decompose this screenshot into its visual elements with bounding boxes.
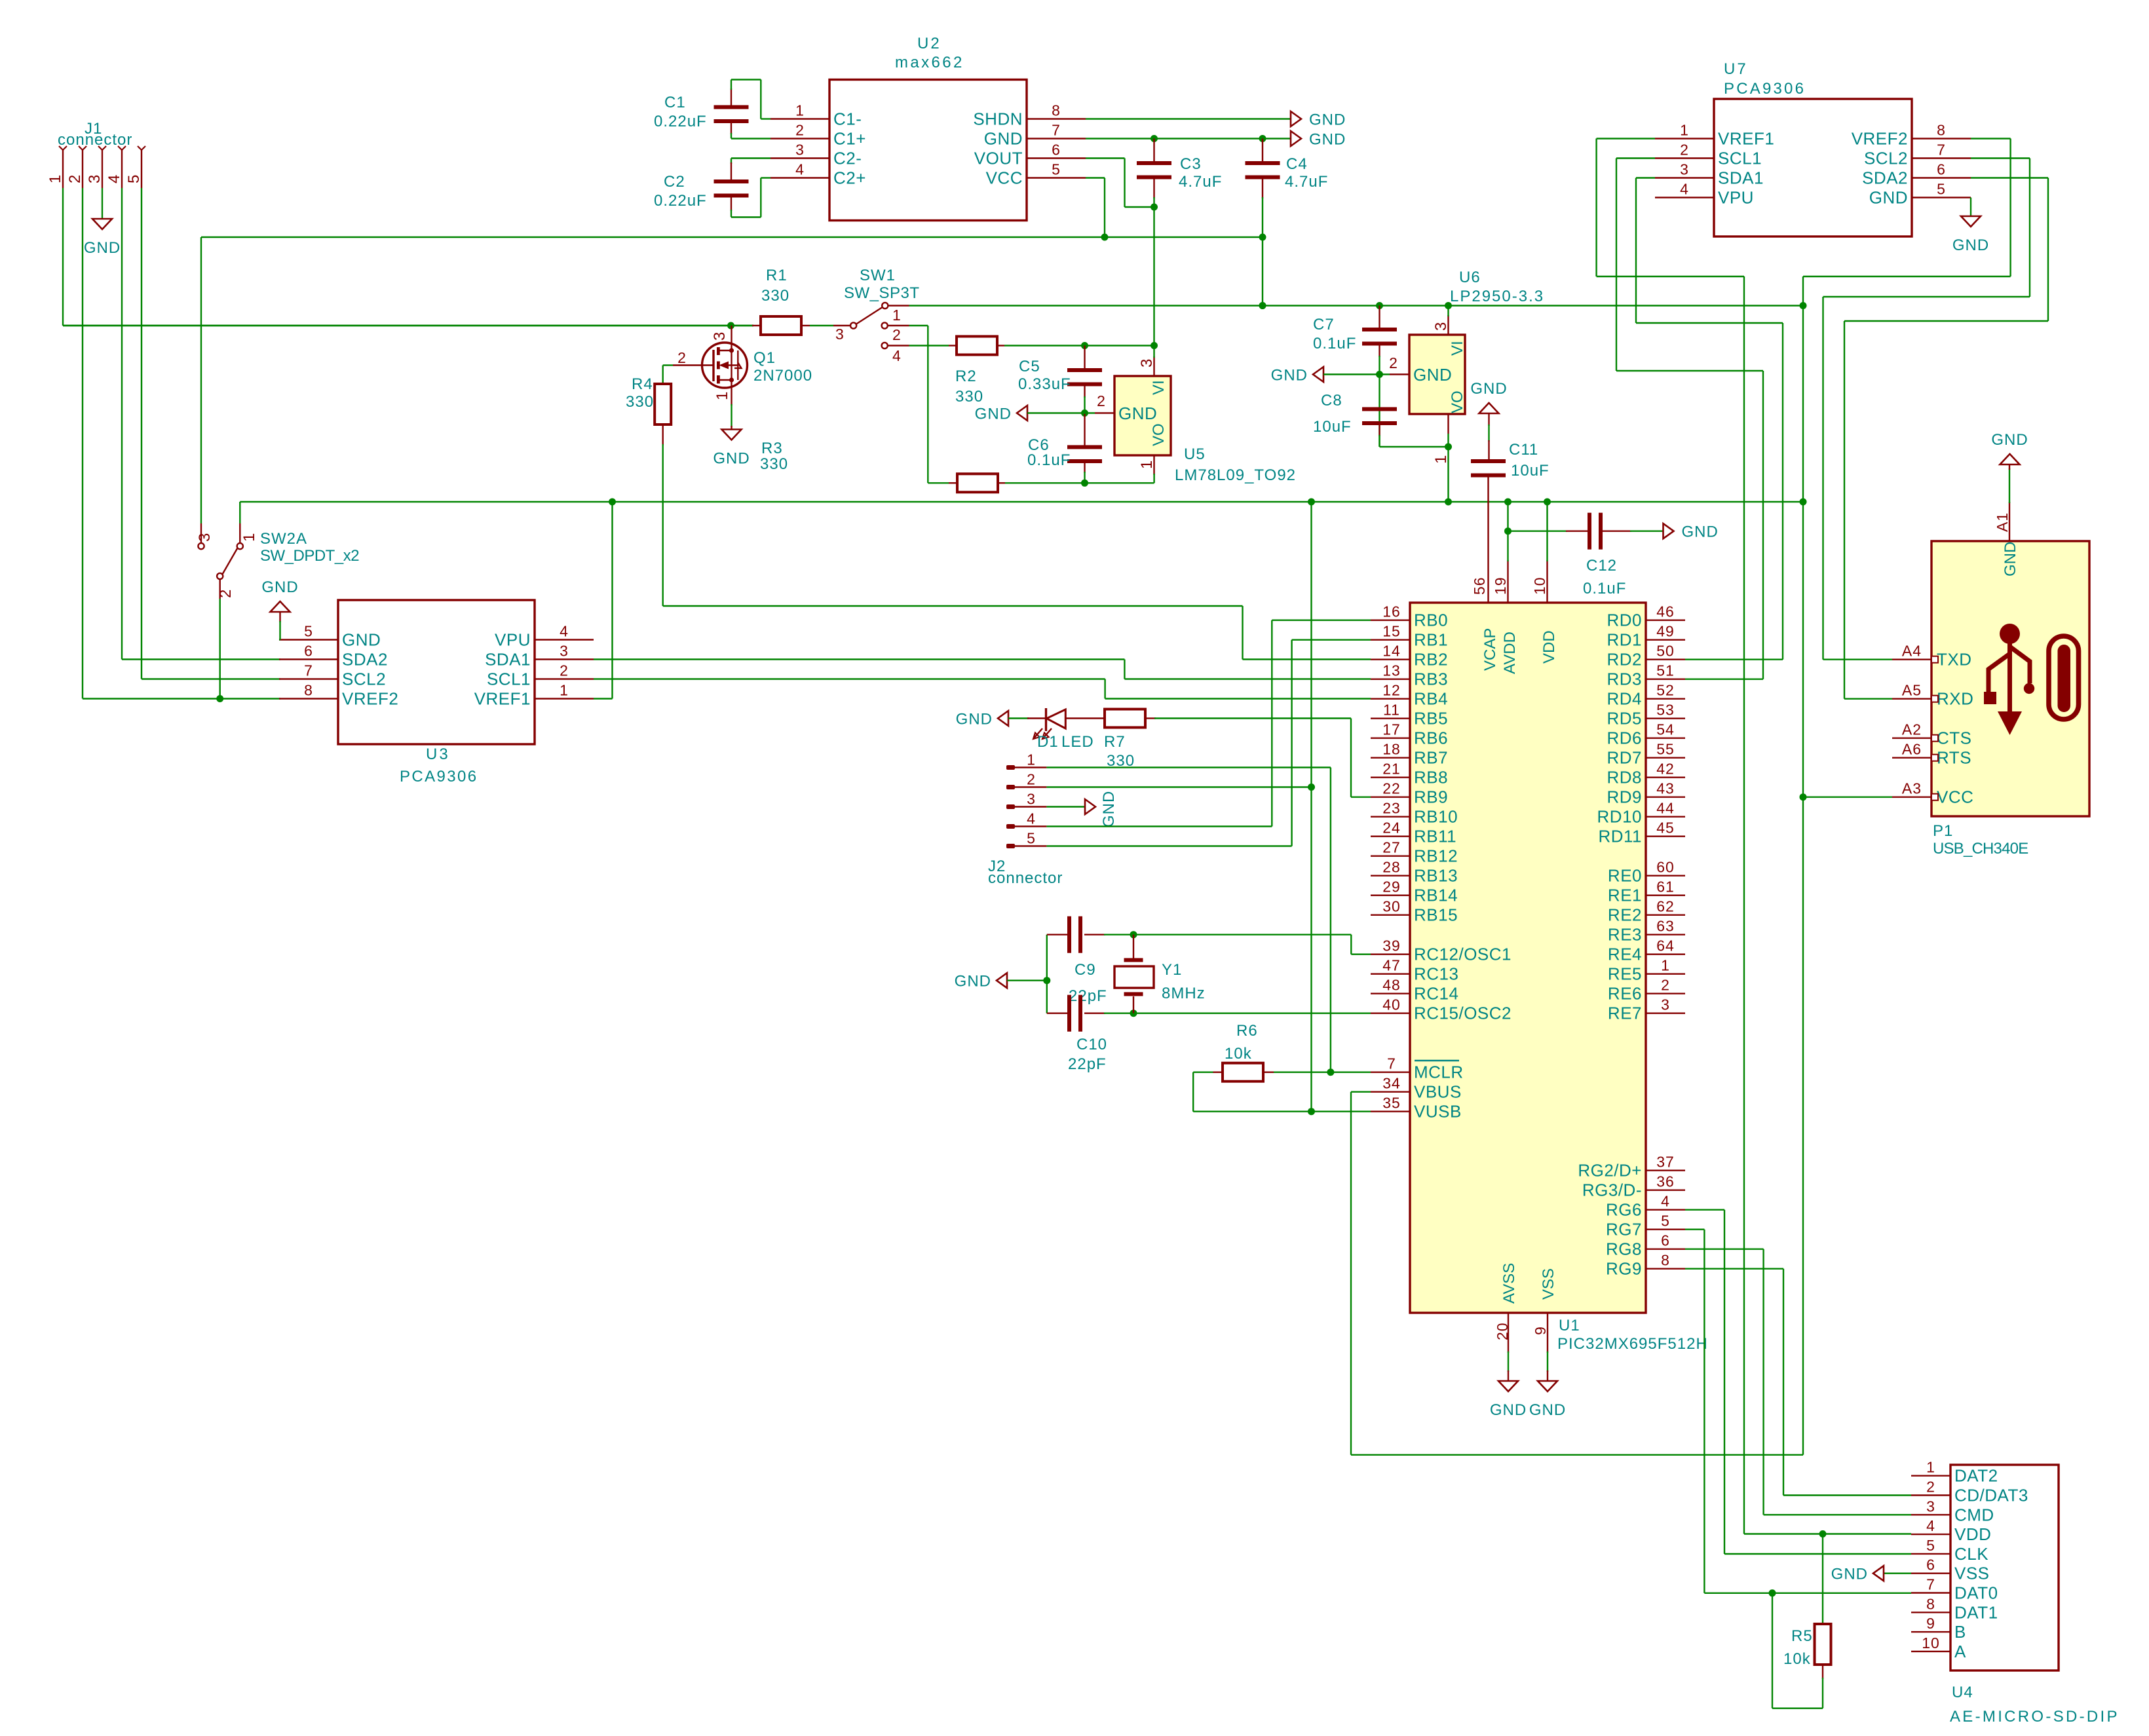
svg-text:GND: GND bbox=[955, 973, 991, 991]
svg-text:U6: U6 bbox=[1459, 269, 1481, 286]
svg-text:1: 1 bbox=[240, 533, 258, 542]
svg-text:2N7000: 2N7000 bbox=[753, 367, 812, 385]
svg-text:R2: R2 bbox=[955, 368, 977, 385]
svg-text:44: 44 bbox=[1656, 800, 1675, 817]
svg-text:max662: max662 bbox=[895, 54, 964, 71]
svg-text:RE3: RE3 bbox=[1608, 925, 1642, 945]
svg-text:SDA1: SDA1 bbox=[485, 650, 531, 670]
svg-text:8MHz: 8MHz bbox=[1162, 985, 1206, 1002]
svg-text:3: 3 bbox=[560, 643, 569, 660]
svg-text:2: 2 bbox=[892, 326, 902, 343]
svg-text:A6: A6 bbox=[1902, 741, 1922, 758]
svg-text:U1: U1 bbox=[1559, 1317, 1580, 1334]
svg-text:VREF1: VREF1 bbox=[474, 689, 531, 709]
svg-text:GND: GND bbox=[713, 450, 750, 468]
svg-text:GND: GND bbox=[1831, 1566, 1868, 1583]
svg-text:34: 34 bbox=[1382, 1075, 1401, 1092]
svg-text:42: 42 bbox=[1656, 761, 1675, 778]
svg-text:RE5: RE5 bbox=[1608, 964, 1642, 984]
svg-text:SCL2: SCL2 bbox=[1864, 149, 1908, 168]
svg-text:VREF2: VREF2 bbox=[1852, 129, 1908, 149]
svg-text:45: 45 bbox=[1656, 820, 1675, 837]
svg-text:2: 2 bbox=[560, 662, 569, 679]
svg-text:A: A bbox=[1954, 1642, 1966, 1661]
svg-text:RG7: RG7 bbox=[1606, 1220, 1642, 1239]
svg-text:22pF: 22pF bbox=[1068, 1055, 1107, 1073]
svg-text:A3: A3 bbox=[1902, 780, 1922, 797]
svg-text:TXD: TXD bbox=[1937, 650, 1972, 670]
svg-text:VPU: VPU bbox=[495, 630, 531, 650]
svg-text:VREF1: VREF1 bbox=[1718, 129, 1774, 149]
svg-text:LM78L09_TO92: LM78L09_TO92 bbox=[1175, 466, 1296, 484]
svg-text:2: 2 bbox=[1097, 392, 1106, 409]
svg-text:52: 52 bbox=[1656, 682, 1675, 699]
svg-text:Y1: Y1 bbox=[1162, 961, 1182, 979]
svg-text:35: 35 bbox=[1382, 1095, 1401, 1112]
svg-text:GND: GND bbox=[342, 630, 381, 650]
svg-text:24: 24 bbox=[1382, 820, 1401, 837]
svg-text:RD9: RD9 bbox=[1607, 787, 1642, 807]
svg-text:4: 4 bbox=[892, 347, 902, 364]
svg-text:SHDN: SHDN bbox=[973, 109, 1023, 129]
svg-text:RD4: RD4 bbox=[1607, 689, 1642, 709]
svg-text:C9: C9 bbox=[1074, 961, 1096, 979]
svg-text:U3: U3 bbox=[426, 745, 450, 763]
svg-text:17: 17 bbox=[1382, 721, 1401, 738]
svg-text:GND: GND bbox=[1490, 1401, 1527, 1419]
svg-text:RB7: RB7 bbox=[1414, 748, 1448, 768]
svg-text:60: 60 bbox=[1656, 859, 1675, 876]
svg-text:AE-MICRO-SD-DIP: AE-MICRO-SD-DIP bbox=[1950, 1708, 2120, 1726]
svg-text:VI: VI bbox=[1150, 380, 1168, 395]
svg-text:7: 7 bbox=[1052, 122, 1061, 139]
svg-text:4: 4 bbox=[1680, 181, 1689, 198]
svg-text:1: 1 bbox=[560, 682, 569, 699]
svg-text:GND: GND bbox=[1952, 236, 1989, 254]
svg-text:1: 1 bbox=[1680, 122, 1689, 139]
svg-text:1: 1 bbox=[1926, 1459, 1935, 1476]
svg-text:40: 40 bbox=[1382, 996, 1401, 1013]
svg-text:VBUS: VBUS bbox=[1414, 1082, 1462, 1102]
svg-text:RD0: RD0 bbox=[1607, 611, 1642, 630]
svg-text:10k: 10k bbox=[1783, 1650, 1811, 1668]
svg-text:VCC: VCC bbox=[1937, 787, 1973, 807]
svg-text:3: 3 bbox=[1138, 358, 1156, 368]
svg-text:5: 5 bbox=[1926, 1537, 1935, 1554]
svg-text:0.33uF: 0.33uF bbox=[1018, 375, 1071, 393]
svg-text:GND: GND bbox=[1991, 431, 2028, 449]
svg-text:C11: C11 bbox=[1509, 441, 1538, 459]
svg-text:RB3: RB3 bbox=[1414, 670, 1448, 689]
svg-text:RD11: RD11 bbox=[1598, 827, 1642, 846]
svg-text:6: 6 bbox=[304, 643, 313, 660]
svg-text:RG9: RG9 bbox=[1606, 1259, 1642, 1279]
svg-text:51: 51 bbox=[1656, 662, 1675, 679]
svg-text:8: 8 bbox=[1937, 122, 1946, 139]
svg-text:SW2A: SW2A bbox=[260, 530, 307, 548]
svg-text:RG3/D-: RG3/D- bbox=[1582, 1180, 1642, 1200]
svg-text:12: 12 bbox=[1382, 682, 1401, 699]
svg-text:2: 2 bbox=[1389, 354, 1398, 371]
svg-text:CMD: CMD bbox=[1954, 1505, 1994, 1524]
svg-text:C2+: C2+ bbox=[833, 168, 866, 188]
svg-text:RB15: RB15 bbox=[1414, 905, 1458, 925]
svg-text:22: 22 bbox=[1382, 780, 1401, 797]
svg-text:SCL2: SCL2 bbox=[342, 670, 386, 689]
svg-text:8: 8 bbox=[304, 682, 313, 699]
svg-text:C5: C5 bbox=[1019, 358, 1040, 375]
svg-text:PCA9306: PCA9306 bbox=[1724, 80, 1806, 98]
svg-text:61: 61 bbox=[1656, 878, 1675, 896]
svg-text:A2: A2 bbox=[1902, 721, 1922, 738]
svg-text:RB0: RB0 bbox=[1414, 611, 1448, 630]
svg-text:VUSB: VUSB bbox=[1414, 1102, 1462, 1122]
svg-text:GND: GND bbox=[84, 239, 121, 257]
svg-text:1: 1 bbox=[713, 391, 731, 400]
svg-text:U7: U7 bbox=[1724, 60, 1748, 78]
svg-text:50: 50 bbox=[1656, 643, 1675, 660]
svg-text:1: 1 bbox=[1661, 957, 1670, 974]
svg-text:SDA2: SDA2 bbox=[1862, 168, 1908, 188]
svg-text:U4: U4 bbox=[1952, 1684, 1973, 1701]
svg-text:43: 43 bbox=[1656, 780, 1675, 797]
svg-text:53: 53 bbox=[1656, 702, 1675, 719]
svg-text:10k: 10k bbox=[1225, 1045, 1252, 1063]
svg-text:6: 6 bbox=[1661, 1232, 1670, 1249]
svg-text:21: 21 bbox=[1382, 761, 1401, 778]
svg-text:C1+: C1+ bbox=[833, 129, 866, 149]
svg-text:29: 29 bbox=[1382, 878, 1401, 896]
svg-text:10uF: 10uF bbox=[1313, 418, 1352, 436]
svg-text:49: 49 bbox=[1656, 623, 1675, 640]
svg-text:3: 3 bbox=[86, 174, 104, 183]
svg-text:5: 5 bbox=[1027, 830, 1036, 847]
svg-text:4: 4 bbox=[1926, 1517, 1935, 1534]
svg-text:54: 54 bbox=[1656, 721, 1675, 738]
svg-text:C8: C8 bbox=[1321, 392, 1342, 409]
svg-text:2: 2 bbox=[1680, 142, 1689, 159]
svg-text:GND: GND bbox=[1470, 380, 1507, 398]
svg-text:16: 16 bbox=[1382, 603, 1401, 620]
svg-text:19: 19 bbox=[1492, 576, 1509, 595]
svg-text:3: 3 bbox=[1661, 996, 1670, 1013]
svg-text:GND: GND bbox=[984, 129, 1023, 149]
svg-text:VSS: VSS bbox=[1954, 1564, 1990, 1583]
svg-text:VDD: VDD bbox=[1540, 630, 1558, 664]
svg-text:RC15/OSC2: RC15/OSC2 bbox=[1414, 1004, 1512, 1023]
svg-text:GND: GND bbox=[1309, 111, 1346, 129]
svg-text:30: 30 bbox=[1382, 898, 1401, 915]
svg-text:3: 3 bbox=[711, 331, 729, 341]
svg-text:VCAP: VCAP bbox=[1481, 628, 1499, 671]
svg-text:C12: C12 bbox=[1586, 557, 1617, 575]
svg-text:VO: VO bbox=[1449, 390, 1466, 413]
svg-text:GND: GND bbox=[1869, 188, 1908, 208]
svg-text:GND: GND bbox=[261, 578, 298, 596]
svg-text:RG8: RG8 bbox=[1606, 1239, 1642, 1259]
svg-text:SW_SP3T: SW_SP3T bbox=[844, 284, 920, 302]
svg-text:LP2950-3.3: LP2950-3.3 bbox=[1450, 288, 1544, 305]
svg-text:2: 2 bbox=[1926, 1479, 1935, 1496]
svg-text:11: 11 bbox=[1383, 702, 1400, 719]
svg-text:C3: C3 bbox=[1180, 155, 1202, 173]
svg-text:RE0: RE0 bbox=[1608, 866, 1642, 886]
svg-text:U5: U5 bbox=[1184, 445, 1206, 463]
svg-text:RE2: RE2 bbox=[1608, 905, 1642, 925]
svg-text:R5: R5 bbox=[1791, 1627, 1813, 1645]
svg-text:2: 2 bbox=[66, 174, 84, 183]
svg-text:C1-: C1- bbox=[833, 109, 862, 129]
svg-text:RD7: RD7 bbox=[1607, 748, 1642, 768]
svg-text:3: 3 bbox=[1027, 791, 1036, 808]
svg-text:GND: GND bbox=[975, 406, 1012, 423]
svg-text:RG6: RG6 bbox=[1606, 1200, 1642, 1220]
svg-text:2: 2 bbox=[217, 589, 235, 598]
svg-text:RB2: RB2 bbox=[1414, 650, 1448, 670]
svg-text:64: 64 bbox=[1656, 937, 1675, 954]
svg-text:23: 23 bbox=[1382, 800, 1401, 817]
svg-text:RXD: RXD bbox=[1937, 689, 1973, 709]
svg-text:3: 3 bbox=[1432, 322, 1450, 331]
svg-text:330: 330 bbox=[626, 393, 654, 411]
svg-text:27: 27 bbox=[1382, 839, 1401, 856]
svg-text:4: 4 bbox=[1027, 810, 1036, 827]
svg-text:GND: GND bbox=[1413, 365, 1452, 385]
svg-text:22pF: 22pF bbox=[1069, 987, 1107, 1005]
svg-text:RE1: RE1 bbox=[1608, 886, 1642, 905]
svg-text:RC12/OSC1: RC12/OSC1 bbox=[1414, 945, 1512, 964]
svg-text:RB6: RB6 bbox=[1414, 728, 1448, 748]
svg-text:14: 14 bbox=[1382, 643, 1401, 660]
svg-text:1: 1 bbox=[1027, 751, 1036, 768]
svg-text:AVSS: AVSS bbox=[1500, 1263, 1518, 1304]
svg-text:10uF: 10uF bbox=[1511, 462, 1550, 480]
svg-text:63: 63 bbox=[1656, 918, 1675, 935]
svg-text:0.22uF: 0.22uF bbox=[654, 192, 707, 210]
svg-text:39: 39 bbox=[1382, 937, 1401, 954]
svg-text:SW1: SW1 bbox=[860, 267, 896, 284]
svg-text:R4: R4 bbox=[632, 375, 653, 393]
svg-text:62: 62 bbox=[1656, 898, 1675, 915]
svg-text:RE7: RE7 bbox=[1608, 1004, 1642, 1023]
svg-text:RC14: RC14 bbox=[1414, 984, 1458, 1004]
svg-text:RD6: RD6 bbox=[1607, 728, 1642, 748]
svg-text:47: 47 bbox=[1382, 957, 1401, 974]
svg-text:7: 7 bbox=[1387, 1055, 1396, 1072]
svg-text:20: 20 bbox=[1494, 1322, 1511, 1340]
svg-text:RB8: RB8 bbox=[1414, 768, 1448, 787]
svg-text:GND: GND bbox=[1100, 791, 1118, 827]
svg-text:SCL1: SCL1 bbox=[1718, 149, 1762, 168]
svg-text:28: 28 bbox=[1382, 859, 1401, 876]
svg-text:36: 36 bbox=[1656, 1173, 1675, 1190]
svg-text:C2-: C2- bbox=[833, 149, 862, 168]
svg-text:RB10: RB10 bbox=[1414, 807, 1458, 827]
svg-text:5: 5 bbox=[1661, 1213, 1670, 1230]
svg-text:10: 10 bbox=[1531, 576, 1548, 595]
svg-text:7: 7 bbox=[304, 662, 313, 679]
svg-text:4.7uF: 4.7uF bbox=[1285, 173, 1328, 191]
svg-text:A1: A1 bbox=[1994, 512, 2011, 532]
svg-text:0.1uF: 0.1uF bbox=[1313, 335, 1356, 352]
svg-text:7: 7 bbox=[1926, 1576, 1935, 1593]
svg-text:VO: VO bbox=[1150, 423, 1168, 446]
svg-text:48: 48 bbox=[1382, 977, 1401, 994]
svg-text:330: 330 bbox=[760, 455, 788, 473]
svg-text:connector: connector bbox=[58, 131, 132, 149]
svg-text:RE4: RE4 bbox=[1608, 945, 1642, 964]
svg-text:GND: GND bbox=[1682, 523, 1719, 541]
svg-text:VPU: VPU bbox=[1718, 188, 1754, 208]
svg-text:C1: C1 bbox=[664, 94, 686, 111]
svg-text:R7: R7 bbox=[1104, 733, 1126, 751]
svg-text:RD10: RD10 bbox=[1597, 807, 1642, 827]
svg-text:3: 3 bbox=[835, 326, 845, 343]
svg-text:10: 10 bbox=[1922, 1634, 1940, 1651]
svg-text:2: 2 bbox=[795, 122, 805, 139]
svg-text:3: 3 bbox=[196, 533, 214, 542]
svg-text:MCLR: MCLR bbox=[1414, 1063, 1464, 1082]
svg-text:USB_CH340E: USB_CH340E bbox=[1933, 840, 2028, 858]
svg-text:AVDD: AVDD bbox=[1501, 632, 1519, 674]
svg-text:15: 15 bbox=[1382, 623, 1401, 640]
svg-text:P1: P1 bbox=[1933, 822, 1953, 840]
svg-text:DAT2: DAT2 bbox=[1954, 1466, 1998, 1486]
svg-text:RB4: RB4 bbox=[1414, 689, 1448, 709]
svg-text:330: 330 bbox=[955, 388, 983, 406]
svg-text:PCA9306: PCA9306 bbox=[400, 768, 478, 785]
svg-text:VCC: VCC bbox=[986, 168, 1023, 188]
svg-text:PIC32MX695F512H: PIC32MX695F512H bbox=[1557, 1335, 1708, 1353]
svg-text:7: 7 bbox=[1937, 142, 1946, 159]
svg-text:1: 1 bbox=[1432, 455, 1450, 464]
svg-text:330: 330 bbox=[761, 287, 789, 305]
svg-text:GND: GND bbox=[1529, 1401, 1566, 1419]
svg-text:4: 4 bbox=[105, 174, 123, 183]
svg-text:A4: A4 bbox=[1902, 643, 1922, 660]
svg-text:1: 1 bbox=[795, 102, 805, 119]
svg-text:1: 1 bbox=[1138, 460, 1156, 469]
svg-text:56: 56 bbox=[1471, 576, 1488, 595]
svg-text:GND: GND bbox=[1309, 131, 1346, 149]
svg-text:0.1uF: 0.1uF bbox=[1027, 451, 1071, 469]
svg-text:RTS: RTS bbox=[1937, 748, 1971, 768]
svg-text:RB1: RB1 bbox=[1414, 630, 1448, 650]
svg-text:RG2/D+: RG2/D+ bbox=[1578, 1161, 1642, 1180]
svg-text:CTS: CTS bbox=[1937, 728, 1972, 748]
svg-text:2: 2 bbox=[1027, 771, 1036, 788]
svg-text:RD3: RD3 bbox=[1607, 670, 1642, 689]
svg-text:4: 4 bbox=[560, 623, 569, 640]
svg-text:R3: R3 bbox=[761, 440, 783, 457]
svg-text:4: 4 bbox=[795, 161, 805, 178]
svg-text:R6: R6 bbox=[1236, 1022, 1258, 1040]
svg-text:GND: GND bbox=[956, 711, 993, 728]
svg-text:RB12: RB12 bbox=[1414, 846, 1458, 866]
svg-text:2: 2 bbox=[1661, 977, 1670, 994]
svg-text:LED: LED bbox=[1061, 733, 1094, 751]
svg-text:5: 5 bbox=[1052, 161, 1061, 178]
svg-text:5: 5 bbox=[304, 623, 313, 640]
svg-text:46: 46 bbox=[1656, 603, 1675, 620]
svg-text:C2: C2 bbox=[664, 173, 685, 191]
svg-text:C10: C10 bbox=[1076, 1036, 1107, 1053]
svg-text:DAT0: DAT0 bbox=[1954, 1583, 1998, 1603]
svg-text:13: 13 bbox=[1382, 662, 1401, 679]
svg-text:RE6: RE6 bbox=[1608, 984, 1642, 1004]
svg-text:GND: GND bbox=[1271, 367, 1308, 385]
svg-text:CLK: CLK bbox=[1954, 1544, 1988, 1564]
svg-text:B: B bbox=[1954, 1622, 1966, 1642]
svg-text:3: 3 bbox=[795, 142, 805, 159]
svg-text:18: 18 bbox=[1382, 741, 1401, 758]
svg-text:RD2: RD2 bbox=[1607, 650, 1642, 670]
svg-text:0.1uF: 0.1uF bbox=[1583, 580, 1626, 597]
svg-text:DAT1: DAT1 bbox=[1954, 1602, 1998, 1622]
svg-text:D1: D1 bbox=[1037, 733, 1059, 751]
svg-text:55: 55 bbox=[1656, 741, 1675, 758]
svg-text:RB14: RB14 bbox=[1414, 886, 1458, 905]
svg-text:CD/DAT3: CD/DAT3 bbox=[1954, 1486, 2028, 1505]
svg-text:VOUT: VOUT bbox=[974, 149, 1023, 168]
svg-text:5: 5 bbox=[125, 174, 143, 183]
svg-text:C7: C7 bbox=[1313, 316, 1335, 333]
svg-text:9: 9 bbox=[1926, 1615, 1935, 1632]
svg-text:RB13: RB13 bbox=[1414, 866, 1458, 886]
svg-text:VI: VI bbox=[1449, 341, 1466, 356]
svg-text:A5: A5 bbox=[1902, 682, 1922, 699]
svg-text:0.22uF: 0.22uF bbox=[654, 113, 707, 130]
svg-text:RD8: RD8 bbox=[1607, 768, 1642, 787]
svg-text:8: 8 bbox=[1052, 102, 1061, 119]
svg-text:connector: connector bbox=[988, 869, 1063, 887]
svg-text:1: 1 bbox=[47, 174, 64, 183]
svg-text:C4: C4 bbox=[1286, 155, 1308, 173]
svg-text:R1: R1 bbox=[766, 267, 788, 284]
svg-text:6: 6 bbox=[1926, 1557, 1935, 1574]
svg-text:9: 9 bbox=[1532, 1326, 1549, 1335]
svg-text:GND: GND bbox=[2002, 542, 2019, 576]
svg-text:8: 8 bbox=[1661, 1252, 1670, 1269]
svg-text:RD5: RD5 bbox=[1607, 709, 1642, 728]
svg-text:Q1: Q1 bbox=[753, 349, 776, 367]
svg-text:SDA2: SDA2 bbox=[342, 650, 388, 670]
svg-text:3: 3 bbox=[1680, 161, 1689, 178]
svg-text:8: 8 bbox=[1926, 1595, 1935, 1612]
svg-text:VREF2: VREF2 bbox=[342, 689, 398, 709]
svg-text:3: 3 bbox=[1926, 1498, 1935, 1515]
svg-text:VDD: VDD bbox=[1954, 1524, 1991, 1544]
svg-text:U2: U2 bbox=[917, 35, 941, 52]
svg-text:RC13: RC13 bbox=[1414, 964, 1458, 984]
svg-text:SCL1: SCL1 bbox=[487, 670, 531, 689]
svg-text:SDA1: SDA1 bbox=[1718, 168, 1764, 188]
svg-text:SW_DPDT_x2: SW_DPDT_x2 bbox=[260, 547, 359, 565]
svg-text:RD1: RD1 bbox=[1607, 630, 1642, 650]
svg-text:RB11: RB11 bbox=[1414, 827, 1456, 846]
svg-text:2: 2 bbox=[677, 349, 687, 366]
svg-text:5: 5 bbox=[1937, 181, 1946, 198]
svg-text:6: 6 bbox=[1937, 161, 1946, 178]
svg-text:4: 4 bbox=[1661, 1193, 1670, 1210]
svg-text:RB9: RB9 bbox=[1414, 787, 1448, 807]
svg-text:RB5: RB5 bbox=[1414, 709, 1448, 728]
svg-text:VSS: VSS bbox=[1540, 1268, 1557, 1300]
svg-text:GND: GND bbox=[1118, 404, 1157, 423]
svg-text:1: 1 bbox=[892, 307, 902, 324]
svg-text:37: 37 bbox=[1656, 1154, 1675, 1171]
svg-text:6: 6 bbox=[1052, 142, 1061, 159]
